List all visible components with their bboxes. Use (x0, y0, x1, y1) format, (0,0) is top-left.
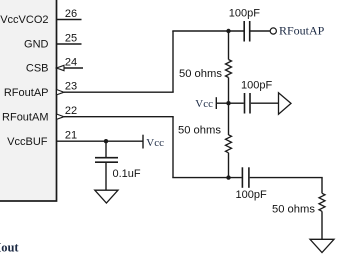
pin 22 output arrow (57, 114, 65, 119)
node junction bottom (226, 175, 230, 179)
wire cap C4 to ground (105, 163, 107, 190)
wire bottom net to cap C3 (172, 177, 241, 179)
ground symbol (bypass) (95, 190, 118, 203)
wire load vertical (321, 178, 323, 194)
svg-text:RFoutAP: RFoutAP (279, 24, 325, 38)
svg-text:RFoutAP: RFoutAP (4, 87, 49, 99)
capacitor C1 100pF plates (243, 21, 245, 42)
svg-text:RFoutAM: RFoutAM (2, 111, 48, 123)
pin 25 wire stub (57, 43, 82, 45)
wire R1 to mid junction (228, 78, 230, 136)
wire R3 to ground (321, 211, 323, 239)
svg-text:GND: GND (24, 39, 49, 51)
svg-text:24: 24 (65, 57, 77, 69)
svg-text:0.1uF: 0.1uF (113, 168, 141, 180)
wire pin22 vertical drop (172, 117, 174, 178)
wire junction down to cap C4 (105, 141, 107, 157)
svg-text:100pF: 100pF (236, 189, 267, 201)
capacitor C3 100pF plates (241, 167, 243, 188)
svg-text:25: 25 (65, 33, 77, 45)
resistor R1 50 ohms (upper) (226, 60, 232, 78)
resistor R2 50 ohms (lower) (226, 135, 232, 153)
node junction pin21 (104, 139, 108, 143)
svg-text:Hout: Hout (0, 241, 19, 255)
wire pin23 vertical riser (172, 31, 174, 92)
terminal RFoutAP open circle (270, 28, 276, 34)
wire pin22 horizontal (64, 116, 174, 118)
svg-text:22: 22 (65, 105, 77, 117)
svg-text:50 ohms: 50 ohms (272, 204, 315, 216)
svg-text:26: 26 (65, 8, 77, 20)
svg-text:21: 21 (65, 130, 77, 142)
pin 24 input arrow (57, 65, 65, 70)
svg-text:100pF: 100pF (241, 79, 272, 91)
svg-text:VccVCO2: VccVCO2 (0, 14, 48, 26)
pin 26 wire stub (57, 19, 82, 21)
svg-text:100pF: 100pF (229, 8, 260, 20)
wire top net to coupling cap (172, 30, 243, 32)
svg-text:VccBUF: VccBUF (7, 136, 48, 148)
capacitor C2 100pF plates (244, 93, 246, 114)
output arrowhead symbol (right) (279, 93, 292, 114)
node junction mid (Vcc feed) (226, 101, 230, 105)
svg-text:CSB: CSB (26, 63, 49, 75)
ground symbol (load) (310, 239, 334, 252)
capacitor C4 0.1uF plates (95, 157, 118, 159)
resistor R3 50 ohms (load) (319, 193, 325, 211)
node junction top (226, 29, 230, 33)
wire Vcc bar to junction (216, 102, 228, 104)
Vcc supply bar (mid) (215, 97, 217, 109)
svg-text:Vcc: Vcc (195, 98, 213, 110)
wire cap C2 to output arrow (251, 102, 278, 104)
Vcc supply bar (pin21) (142, 135, 144, 149)
wire pin23 horizontal (64, 91, 174, 93)
wire mid junction to cap C2 (229, 102, 244, 104)
svg-text:50 ohms: 50 ohms (179, 68, 222, 80)
wire pin21 to Vcc bar (57, 140, 144, 142)
svg-text:23: 23 (65, 81, 77, 93)
wire cap to terminal (251, 30, 271, 32)
wire R2 to bottom junction (228, 153, 230, 178)
pin 24 wire stub (64, 67, 83, 69)
IC U1 pin block (0, 0, 57, 201)
wire top junction to R1 (228, 31, 230, 60)
svg-text:50 ohms: 50 ohms (178, 124, 221, 136)
pin 23 output arrow (57, 90, 65, 95)
svg-text:Vcc: Vcc (146, 137, 164, 149)
wire cap C3 to load corner (250, 177, 323, 179)
